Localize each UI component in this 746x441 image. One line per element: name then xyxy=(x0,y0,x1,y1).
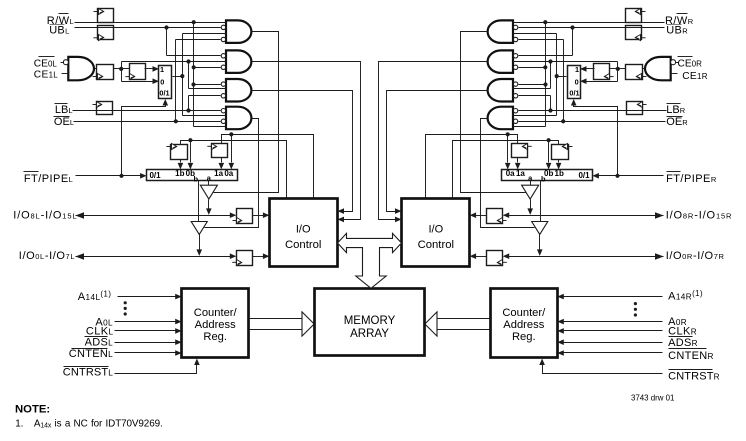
svg-text:CE1R: CE1R xyxy=(682,71,708,82)
svg-text:0/1: 0/1 xyxy=(149,171,161,180)
svg-text:1b: 1b xyxy=(555,169,564,178)
svg-text:Reg.: Reg. xyxy=(512,331,536,343)
svg-text:FT/PIPER: FT/PIPER xyxy=(666,173,717,185)
svg-text:LBR: LBR xyxy=(666,104,685,116)
svg-text:1b: 1b xyxy=(175,169,184,178)
svg-text:ADSR: ADSR xyxy=(668,337,698,349)
svg-text:b: b xyxy=(194,174,199,183)
svg-text:0: 0 xyxy=(575,78,579,87)
svg-text:LBL: LBL xyxy=(55,104,73,116)
svg-text:0a: 0a xyxy=(506,169,515,178)
svg-text:0: 0 xyxy=(160,78,164,87)
svg-text:I/O: I/O xyxy=(428,224,443,236)
svg-text:Control: Control xyxy=(285,239,321,251)
svg-text:CE1L: CE1L xyxy=(34,70,59,81)
svg-text:I/O8R-I/O15R: I/O8R-I/O15R xyxy=(666,210,733,222)
svg-text:NOTE:: NOTE: xyxy=(15,404,50,416)
svg-text:0/1: 0/1 xyxy=(578,171,590,180)
svg-text:OER: OER xyxy=(666,116,688,128)
svg-text:Counter/: Counter/ xyxy=(502,307,546,319)
svg-text:ADSL: ADSL xyxy=(85,336,114,348)
svg-text:0b: 0b xyxy=(544,169,553,178)
svg-text:Control: Control xyxy=(418,239,454,251)
svg-text:1a: 1a xyxy=(516,169,525,178)
svg-text:UBL: UBL xyxy=(49,25,69,37)
svg-text:0a: 0a xyxy=(224,169,233,178)
svg-text:Address: Address xyxy=(195,319,236,331)
svg-text:1.A14x is a NC for IDT70V9269.: 1.A14x is a NC for IDT70V9269. xyxy=(15,419,162,430)
svg-text:CE0L: CE0L xyxy=(34,58,58,69)
svg-text:CNTRSTR: CNTRSTR xyxy=(668,371,720,383)
svg-text:Reg.: Reg. xyxy=(203,331,227,343)
svg-text:0/1: 0/1 xyxy=(569,89,579,98)
svg-text:OEL: OEL xyxy=(54,116,74,128)
svg-text:1: 1 xyxy=(575,65,579,74)
svg-text:1: 1 xyxy=(160,65,164,74)
svg-text:CNTRSTL: CNTRSTL xyxy=(63,367,114,379)
svg-text:0/1: 0/1 xyxy=(159,89,169,98)
svg-text:Counter/: Counter/ xyxy=(194,307,238,319)
svg-text:1a: 1a xyxy=(214,169,223,178)
svg-text:ARRAY: ARRAY xyxy=(350,328,389,340)
svg-text:3743 drw 01: 3743 drw 01 xyxy=(631,394,674,403)
svg-text:Address: Address xyxy=(503,319,544,331)
svg-text:MEMORY: MEMORY xyxy=(344,315,396,327)
svg-text:UBR: UBR xyxy=(666,25,688,37)
svg-text:FT/PIPEL: FT/PIPEL xyxy=(24,173,73,185)
svg-text:I/O: I/O xyxy=(296,224,311,236)
svg-text:CNTENL: CNTENL xyxy=(69,348,113,360)
svg-text:CNTENR: CNTENR xyxy=(668,350,714,362)
svg-text:I/O0L-I/O7L: I/O0L-I/O7L xyxy=(19,250,75,262)
svg-text:CLKR: CLKR xyxy=(668,326,697,338)
svg-text:I/O8L-I/O15L: I/O8L-I/O15L xyxy=(13,210,77,222)
svg-text:CE0R: CE0R xyxy=(678,58,703,69)
svg-text:I/O0R-I/O7R: I/O0R-I/O7R xyxy=(666,250,725,262)
